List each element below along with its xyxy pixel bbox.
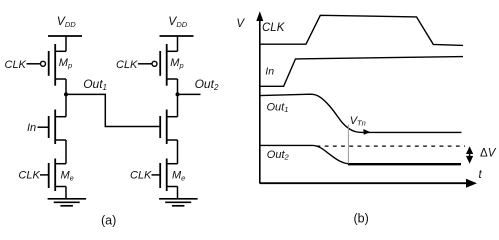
svg-text:CLK: CLK (116, 59, 138, 71)
svg-text:ΔV: ΔV (480, 148, 497, 160)
svg-text:CLK: CLK (18, 170, 40, 182)
svg-text:(a): (a) (101, 214, 116, 228)
svg-text:V: V (236, 18, 245, 30)
svg-text:In: In (265, 66, 274, 78)
svg-text:CLK: CLK (5, 59, 27, 71)
svg-text:(b): (b) (354, 212, 369, 226)
svg-text:In: In (27, 122, 36, 134)
svg-text:CLK: CLK (262, 22, 286, 34)
svg-text:CLK: CLK (130, 170, 152, 182)
